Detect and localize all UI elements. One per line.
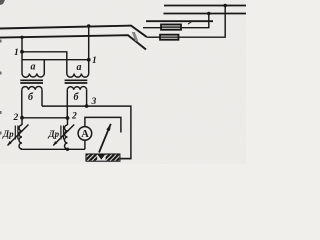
wire: bottom rail bbox=[21, 148, 85, 150]
wire: riser from L2 down to transformer T1 bbox=[21, 37, 23, 73]
node 1 (right), junction J1R bbox=[87, 58, 91, 62]
node 2 (right), junction J2R bbox=[66, 116, 70, 120]
node 3 bbox=[85, 104, 89, 108]
speck on N3 bbox=[188, 22, 191, 24]
insulator smudge on line drop bbox=[132, 32, 139, 41]
node 2 (left), junction J2L bbox=[20, 116, 24, 120]
scan specks bbox=[0, 0, 5, 5]
node: tap on L2 at x22 bbox=[20, 36, 23, 39]
core T1 bbox=[20, 80, 43, 83]
node: junction on N1 bbox=[223, 4, 227, 8]
wire: connector from J1L to T2 primary bbox=[22, 52, 67, 60]
fuse F2 (lower) bbox=[147, 35, 179, 40]
transformer T2 primary winding a bbox=[67, 60, 89, 77]
node: junction on L1 bbox=[87, 24, 91, 28]
wire: F1 to N2 riser bbox=[181, 14, 209, 28]
choke Dr1 bbox=[2, 118, 29, 149]
wire: connector between J2L and J2R bbox=[22, 117, 68, 119]
wire: broadcast line L1 (top left horizontal + diagonal drop) bbox=[0, 26, 147, 37]
switch arm (arrester arrow) bbox=[99, 124, 111, 153]
wire: F2 to N1 riser bbox=[179, 6, 226, 38]
paper grain bbox=[0, 0, 1, 1]
core T2 bbox=[65, 80, 88, 83]
transformer T1 secondary winding b bbox=[22, 86, 42, 117]
transformer T1 primary winding a bbox=[22, 60, 44, 78]
fuse F1 (upper) bbox=[143, 24, 181, 29]
wire: lighting network line N1 (top right) bbox=[164, 5, 246, 7]
wire: line B from T1 primary to J1R bbox=[44, 59, 88, 61]
choke Dr2 bbox=[48, 118, 75, 149]
wire: lighting network line N3 bbox=[146, 20, 213, 22]
wire: riser from J1R up to L1 bbox=[88, 26, 90, 60]
wire: lighting network line N2 bbox=[164, 13, 247, 15]
node 1 (left), junction J1L bbox=[20, 50, 24, 54]
wire: broadcast line L2 (lower left horizontal + long diagonal free end) bbox=[0, 35, 146, 49]
ground plate (hatched) bbox=[86, 154, 131, 161]
wire: connector A from T1 secondary across to arrester loop bbox=[42, 106, 131, 159]
ammeter A bbox=[78, 117, 121, 149]
node: junction on N2 bbox=[207, 12, 211, 16]
node: junction choke2/rail bbox=[66, 148, 69, 151]
transformer T2 secondary winding b bbox=[67, 87, 86, 118]
